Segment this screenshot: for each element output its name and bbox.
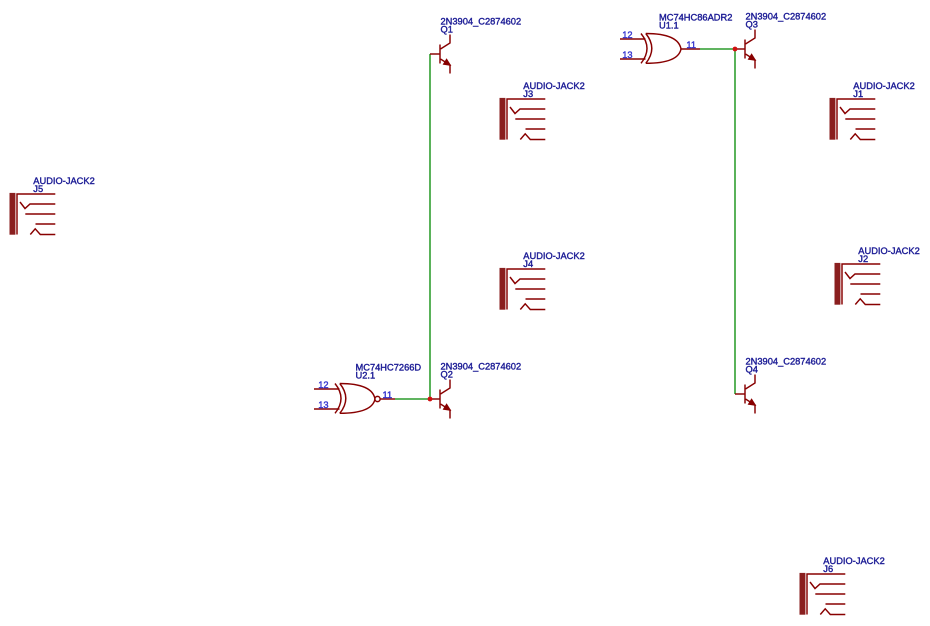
svg-text:J5: J5 [33, 184, 43, 194]
svg-text:12: 12 [318, 380, 328, 390]
svg-text:Q1: Q1 [441, 25, 453, 35]
svg-text:Q2: Q2 [441, 370, 453, 380]
svg-text:11: 11 [383, 390, 393, 400]
svg-text:J4: J4 [523, 259, 533, 269]
svg-text:12: 12 [622, 30, 632, 40]
svg-text:J3: J3 [523, 89, 533, 99]
svg-text:Q3: Q3 [746, 20, 758, 30]
svg-text:J6: J6 [823, 564, 833, 574]
svg-text:Q4: Q4 [746, 365, 758, 375]
svg-text:13: 13 [318, 400, 328, 410]
svg-text:13: 13 [622, 50, 632, 60]
svg-text:J1: J1 [853, 89, 863, 99]
svg-text:11: 11 [686, 40, 696, 50]
svg-text:U2.1: U2.1 [356, 371, 376, 381]
svg-text:U1.1: U1.1 [659, 21, 679, 31]
svg-text:J2: J2 [858, 254, 868, 264]
